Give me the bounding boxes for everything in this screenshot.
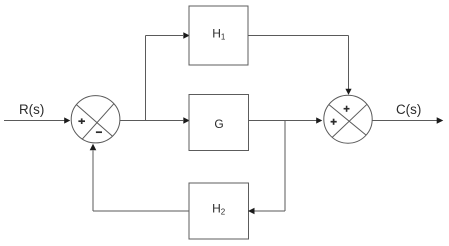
wire G output to S2 [249, 120, 317, 122]
wire S1 to G with branch [120, 120, 183, 122]
wire H1 output to S2 top [248, 35, 349, 37]
svg-text:C(s): C(s) [396, 102, 421, 117]
wire R(s) input [4, 120, 65, 122]
wire H2 output to S1 bottom [93, 210, 189, 212]
block G [189, 95, 249, 151]
svg-text:R(s): R(s) [19, 102, 44, 117]
block H1 [189, 6, 248, 65]
summing junction S2 [324, 95, 372, 143]
wire S2 output C(s) [372, 120, 437, 122]
wire branch down to H2 [284, 121, 286, 212]
summing junction S1 [71, 96, 120, 143]
block H2 [189, 183, 249, 239]
svg-text:G: G [214, 117, 223, 131]
wire branch up to H1 [145, 36, 147, 121]
